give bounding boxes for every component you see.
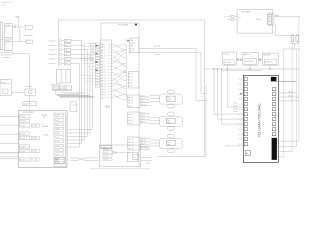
wire staircase 2 [67,143,82,145]
svg-text:Awh_(T): Awh_(T) [128,147,134,150]
wire black bar tick 2 [277,145,297,147]
relay input terminal 6 [19,145,29,148]
resistor R2 [296,34,298,36]
contact K4 aux [59,86,65,90]
IO left pin 11 [244,128,247,131]
svg-text:m-D0: m-D0 [56,116,59,118]
svg-text:Dry-park h: Dry-park h [223,53,230,55]
contact symbol X1 [31,124,35,127]
IO left pin 9 [244,118,247,121]
svg-text:A_-D: A_-D [129,79,132,82]
IO bottom small box W [245,150,250,155]
IO right black pin bar [272,138,277,160]
relay output terminal column [54,113,65,167]
wire top bus horizontal [58,19,204,21]
svg-text:GAT_17: GAT_17 [101,88,106,91]
svg-text:Avh (T): Avh (T) [141,118,146,121]
wire feeder A to valves [139,48,196,50]
IO left pin 5 [244,98,247,101]
relay input terminal 1 [19,115,29,118]
junction box small [70,102,77,112]
wire bundle vertical 3 [86,50,88,137]
svg-text:A_-C: A_-C [129,76,132,79]
relay input terminal 4 [19,132,29,135]
svg-text:sample? im: sample? im [3,57,11,59]
PSU output connector [268,14,272,24]
svg-text:LT: LT [42,124,44,126]
indicator box H1 [25,25,32,29]
wire rectifier lower [52,90,72,92]
svg-text:A-B Y: A-B Y [130,45,134,48]
svg-text:In green 4: In green 4 [48,54,55,56]
svg-text:Avh (T): Avh (T) [141,112,146,115]
svg-text:###_A: ###_A [104,151,108,154]
svg-text:L-3000: L-3000 [44,135,49,137]
wire staircase 1 [67,146,79,148]
relay board RLC3 outer box [18,111,67,168]
relay input terminal 7 [19,150,29,153]
IO left pin 14 [244,143,247,146]
PLC U1 24a sub box [106,106,110,108]
wire F2 drop [249,65,251,69]
svg-text:FDU-24AA / FDU-24AC: FDU-24AA / FDU-24AC [258,103,262,137]
contact symbol X2 [31,137,35,140]
svg-text:m-D6: m-D6 [56,141,59,143]
svg-text:PLT-1/GM: PLT-1/GM [119,25,129,27]
wire right pin 1 out [276,80,296,82]
svg-text:2YV2B: 2YV2B [5,41,10,43]
IO right pin 6 [272,108,275,111]
svg-text:GAT_5: GAT_5 [101,54,106,57]
rectifier bridge frame [56,70,70,83]
relay output pin 7 [56,140,64,143]
svg-text:a: a [39,108,40,110]
relay output pin 5 [56,131,64,134]
indicator box H2 [26,40,32,43]
svg-text:STROMG: STROMG [42,126,49,128]
svg-text:MNN3 NNN: MNN3 NNN [263,54,270,56]
wire bottom right rail [284,48,300,50]
power supply PS1 box [237,10,273,33]
wire right vertical a [283,49,285,157]
PLC U1 corner mark [135,24,137,25]
svg-text:L: L [100,159,101,161]
wire feeder drop [28,106,30,111]
svg-text:Oma: Oma [167,142,170,144]
wire bundle vertical 2 [83,45,85,140]
svg-text:Avh_(T): Avh_(T) [128,116,133,119]
wire mid bus second [222,69,262,71]
wire drop D2 to connector [217,69,219,119]
PLC U1 bottom a+b box [102,146,112,149]
wire pump to main table [11,91,25,93]
svg-text:In green 2: In green 2 [48,45,55,47]
svg-text:Rect 1 fleet w: Rect 1 fleet w [51,83,62,86]
svg-text:a: a [28,42,29,44]
svg-text:a1: a1 [5,44,7,46]
svg-text:L: L [100,152,101,154]
wire K1 to lamp [13,26,26,28]
junction cross [14,25,16,28]
connector J4 box [128,95,140,108]
wire mid bus [205,68,301,70]
svg-text:A_-F: A_-F [129,85,132,88]
connector J2 box [130,38,139,53]
svg-text:a: a [4,91,5,93]
svg-text:GAT_16: GAT_16 [101,85,106,88]
svg-text:Oma: Oma [167,120,170,122]
svg-text:m-D8: m-D8 [56,150,59,152]
IO right pin 5 [272,103,275,106]
terminal block X1 left strip [0,22,2,37]
IO left pin 13 [244,138,247,141]
filter module F3 box [262,53,278,65]
svg-text:GAT_6: GAT_6 [101,57,106,60]
svg-text:HC_Ry11: HC_Ry11 [20,121,26,123]
relay output pin 9 [56,149,64,152]
relay output pin 10 [56,153,64,156]
relay K1 box [4,24,12,38]
wire top bus right drop [204,20,206,157]
wire bundle vertical 4 [89,54,91,133]
svg-text:Main table: Main table [25,85,32,88]
pump inner box [3,89,8,93]
PLC U1 outer box PLT-1/GM [101,22,139,24]
svg-text:Avh_(T): Avh_(T) [128,122,133,125]
svg-text:MMW3 km: MMW3 km [243,54,250,56]
relay K2 box [4,39,12,51]
svg-text:GAT_1: GAT_1 [101,43,106,46]
svg-text:Pmp ctl: Pmp ctl [1,81,6,84]
svg-text:sample m/s: sample m/s [23,104,31,106]
svg-text:HC_Ry12: HC_Ry12 [20,125,26,127]
svg-text:Ath_(T): Ath_(T) [128,99,133,102]
IO right pin 1 filled [271,77,276,81]
PLC U1 inner terminal column [100,40,111,149]
svg-text:Awh (T): Awh (T) [141,146,146,149]
svg-text:lo-left tm: lo-left tm [233,107,238,110]
svg-text:A_TJ: A_TJ [130,50,134,53]
IO left pin marker arrow [240,93,242,95]
wire bundle vertical 5 [92,59,94,130]
svg-text:A_AB: A_AB [130,42,134,45]
contact K3 aux [53,86,59,90]
svg-text:GAT_19: GAT_19 [101,94,106,97]
svg-text:m-D4: m-D4 [56,133,59,135]
svg-text:GAT_18: GAT_18 [101,91,106,94]
IO left pin 12 [244,133,247,136]
junction dots on mid bus [213,68,214,69]
relay output pin 8 [56,144,64,147]
relay output pin 1 [56,114,64,117]
resistor R1 [292,34,294,36]
PSU input pin 2 [231,19,234,21]
wire right vertical b [291,43,293,151]
terminal block X2 left strip [0,39,2,49]
svg-text:Ath (T): Ath (T) [141,103,146,106]
wire valve V3 feeds [141,146,150,148]
svg-text:GND: GND [15,17,20,19]
svg-text:L: L [100,156,101,158]
wire resistor join [291,42,299,44]
svg-text:HC_Ry13: HC_Ry13 [20,133,26,135]
wire drop D1 to connector [213,69,215,114]
contact symbol X3 [31,150,35,153]
svg-text:HC_Ry15: HC_Ry15 [20,146,26,148]
svg-text:GAT_14: GAT_14 [101,80,106,83]
svg-text:Avh_(T): Avh_(T) [128,113,133,116]
wire comb to PLC pins [82,42,96,44]
svg-text:Jjinry MNH: Jjinry MNH [241,11,251,13]
wire right label row 1 [278,92,296,94]
connector J5 box [128,112,140,125]
flow arrow symbol [1,52,14,55]
svg-text:m-D2: m-D2 [56,124,59,126]
svg-text:GAT_12: GAT_12 [101,74,106,77]
svg-text:GAT_3: GAT_3 [101,49,106,52]
connector J3 box [129,72,140,88]
wire black bar tick 1 [277,140,299,142]
svg-text:###_A: ###_A [104,155,108,158]
svg-text:off spd: off spd [289,95,293,97]
relay input terminal 3 [19,124,29,127]
svg-text:GAT_4: GAT_4 [101,52,106,55]
wire staircase 3 [67,139,84,141]
twisted pair crossover [70,157,78,159]
svg-text:GAT_7: GAT_7 [101,60,106,63]
svg-text:HC_Ry17: HC_Ry17 [20,159,26,161]
svg-text:off spd: off spd [289,91,293,93]
svg-text:ItemNo 11-0 rev: ItemNo 11-0 rev [1,1,12,4]
svg-text:In green 1: In green 1 [48,40,55,42]
svg-text:Awh (T): Awh (T) [141,137,146,140]
wire F3 drop [269,65,271,69]
svg-text:In green 6: In green 6 [48,63,55,65]
wire arrow to main table [14,53,29,55]
svg-text:HC_Ry14: HC_Ry14 [20,138,26,140]
relay output pin 4 [56,127,64,130]
svg-text:Cyte: ww: Cyte: ww [154,45,161,48]
PLC U1 pin header dark marks [96,45,98,46]
svg-text:Awh_(T): Awh_(T) [128,138,134,141]
IO right pin 3 [272,93,275,96]
wire stub W_a right [141,157,152,159]
svg-text:a1: a1 [5,29,7,31]
contact K5 aux [66,86,72,90]
IO left pin 7 [244,108,247,111]
svg-text:Comms: Comms [256,19,261,21]
relay output pin 2 [56,119,64,122]
svg-text:GAT_9: GAT_9 [101,66,106,69]
wire staircase 4 [67,136,87,138]
svg-text:GAT_8: GAT_8 [101,63,106,66]
svg-text:lo-left tm: lo-left tm [233,104,238,107]
relay output pin 12 [56,161,64,164]
wire F1 drop [226,65,228,107]
svg-text:###_A: ###_A [104,158,108,161]
relay input terminal 2 [19,119,29,122]
IO right pin 7 [272,113,275,116]
svg-text:RLC3-1/2003: RLC3-1/2003 [23,112,34,114]
feeder label box [22,102,36,106]
IO left pin 10 [244,123,247,126]
svg-text:lo-left tm: lo-left tm [233,110,238,113]
IO left pin 8 [244,113,247,116]
svg-text:Ath (T): Ath (T) [141,95,146,98]
connector J6 box [128,137,140,150]
relay module box 24a [127,152,138,161]
wire K2 to lamp [13,41,27,43]
IO right pin 2 [272,88,275,91]
svg-text:A-B IO: A-B IO [130,47,135,50]
wire right vertical c [296,49,298,146]
wire harness diagonal band [56,93,96,97]
svg-text:Pwr: Pwr [238,16,241,19]
wire RLC3 left feeds [0,115,19,117]
wire vertical link [19,27,21,42]
wire staircase 5 [67,132,90,134]
svg-text:a2: a2 [5,31,7,33]
valve enclosure [205,86,207,157]
svg-text:Oma: Oma [167,98,170,100]
svg-text:2YV1B: 2YV1B [5,25,10,27]
IO left pin 2 [244,83,247,86]
svg-text:Trfmr m: Trfmr m [155,54,161,56]
PSU input pin 1 [231,15,234,17]
svg-text:S7MB MK FM: S7MB MK FM [245,61,253,63]
IO right pin 4 [272,98,275,101]
IO right pin 11 [272,133,275,136]
wire black bar tick 4 [277,156,284,158]
wire PSU down [275,26,277,36]
svg-text:GAT_11: GAT_11 [101,71,106,74]
svg-text:STROMG: STROMG [41,115,48,117]
filter module F2 box [242,53,258,66]
svg-text:24a: 24a [106,106,108,108]
svg-text:Gnms: Gnms [275,15,279,17]
junction strip left of PLC [91,44,94,46]
svg-text:Avh (T): Avh (T) [141,115,146,118]
wire left through line [225,145,244,147]
IO module FDU-24AA outer box [243,75,278,162]
svg-text:GAT_10: GAT_10 [101,68,106,71]
svg-text:24: 24 [224,17,226,19]
wire black bar tick 3 [277,150,292,152]
connector J2 arrow mark [128,40,130,42]
svg-text:Awh (T): Awh (T) [141,143,146,146]
svg-text:Awh_(T): Awh_(T) [128,144,134,147]
valve symbol V2 [167,112,174,116]
svg-text:GAT_15: GAT_15 [101,82,106,85]
wire PSU comm out [274,16,300,18]
wire bundle vertical 6 [78,63,80,147]
main table box [25,89,35,95]
svg-text:AY: AY [124,69,126,72]
svg-text:In green 5: In green 5 [48,59,55,61]
svg-text:Awh_(T): Awh_(T) [128,141,134,144]
svg-text:AL: AL [126,39,128,42]
wire feeder A drop [195,49,197,101]
svg-text:Ath (T): Ath (T) [141,98,146,101]
svg-text:a: a [28,27,29,29]
IO left pin 3 [244,88,247,91]
wire bottom rail faint [90,167,150,169]
svg-text:A_-B: A_-B [129,73,132,76]
svg-text:HC_Ry10: HC_Ry10 [20,116,26,118]
wire feeder B to valves [139,51,201,53]
svg-text:Ath (T): Ath (T) [141,100,146,103]
diode D1 [113,151,116,154]
contact symbol X4 [31,158,35,161]
relay output pin 11 [56,157,64,160]
wire ground stub [18,19,20,27]
svg-text:Awh (T): Awh (T) [141,140,146,143]
svg-text:In green 3: In green 3 [48,49,55,51]
svg-text:m-D9: m-D9 [56,154,59,156]
svg-text:W: W [246,153,248,155]
pump control box [0,79,11,95]
wire drop D3 to connector [221,69,223,124]
svg-text:HC_Ry16: HC_Ry16 [20,151,26,153]
wire crossing bundle [111,44,126,100]
svg-text:Tower table: Tower table [24,34,33,37]
svg-text:24a: 24a [133,156,136,158]
valve symbol V3 [167,134,174,138]
svg-text:GAT_2: GAT_2 [101,46,106,49]
wire feeder B drop [200,52,202,93]
relay output bottom sub box [55,157,65,163]
valve symbol V1 [167,90,174,94]
wire bottom left pair [0,152,18,154]
wire F1-F2 link [236,59,242,61]
svg-text:Ath_(T): Ath_(T) [128,96,133,99]
svg-text:AMB MK FM: AMB MK FM [265,61,272,64]
svg-text:arty-M MN: arty-M MN [225,61,231,64]
wire right vertical d [298,17,300,141]
svg-text:m-D3: m-D3 [56,128,59,130]
wire staircase 6 [67,129,93,131]
relay output pin 6 [56,136,64,139]
terminal box TB1 outer [99,145,140,167]
svg-text:m-D7: m-D7 [56,145,59,147]
svg-text:m-D1: m-D1 [56,120,59,122]
wire right label row 3 [278,100,298,102]
IO left pin 6 [244,103,247,106]
IO right pin 9 [272,123,275,126]
relay output pin 3 [56,123,64,126]
IO right pin 10 [272,128,275,131]
filter module F1 box [223,52,237,65]
wire bundle vertical 1 [81,41,83,144]
svg-text:Avh (T): Avh (T) [141,121,146,124]
relay input terminal 8 [19,158,29,161]
svg-text:Ath_(T): Ath_(T) [128,102,133,105]
svg-text:GND: GND [130,40,133,42]
wire F2-F3 link [258,59,262,61]
svg-text:Avh_(T): Avh_(T) [128,119,133,122]
svg-text:m-D5: m-D5 [56,137,59,139]
IO left pin 1 [244,78,247,81]
svg-text:lo-left tm: lo-left tm [233,102,238,105]
IO left pin 4 [244,93,247,96]
svg-text:W_a: W_a [147,162,150,164]
svg-text:ca: ca [29,92,31,94]
IO right pin 8 [272,118,275,121]
svg-text:A_-E: A_-E [129,82,132,85]
wire right label row 2 [278,96,297,98]
wire bundle collector vertical [126,44,128,100]
PLC U1 left pin header [95,43,99,45]
